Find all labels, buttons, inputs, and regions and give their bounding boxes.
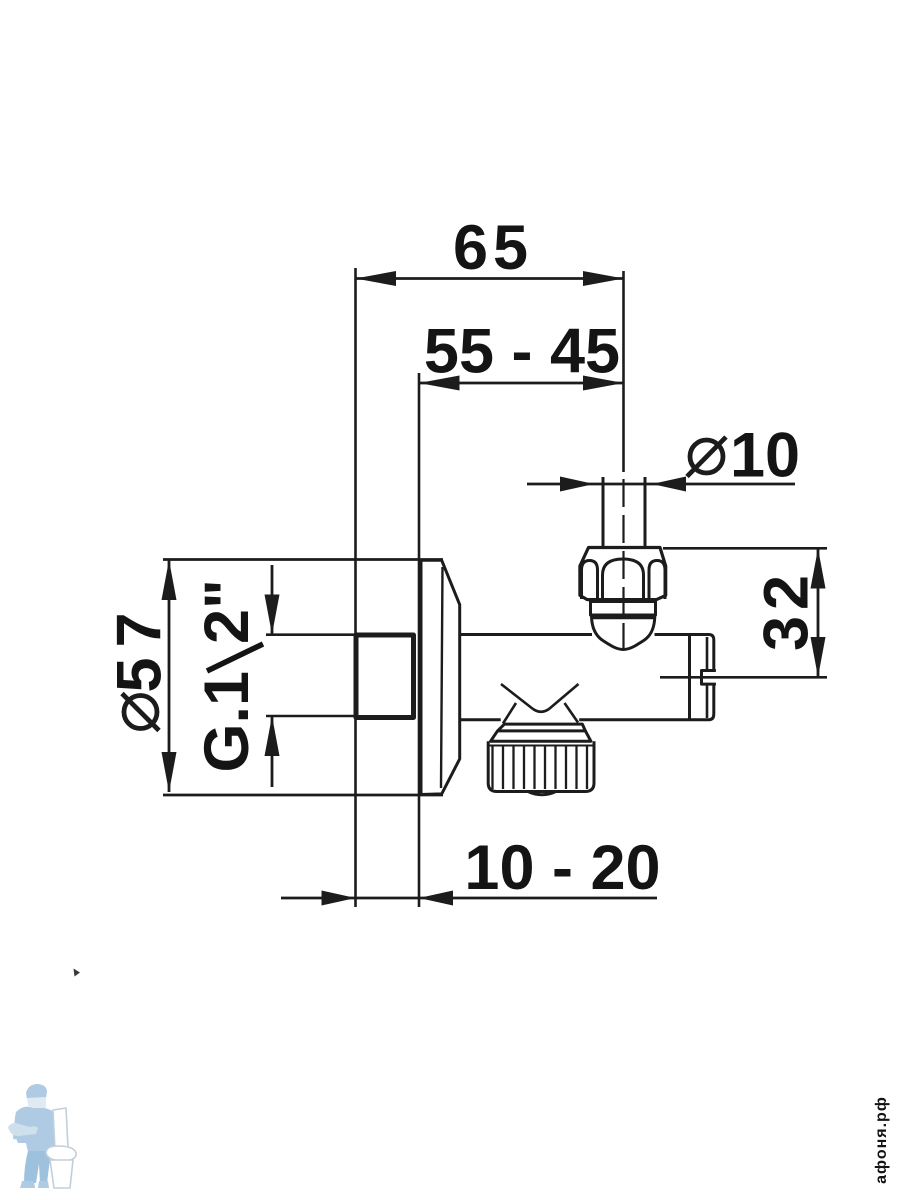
dimension 10-20 line: [281, 897, 657, 900]
svg-text:10: 10: [730, 421, 800, 491]
svg-text:57: 57: [105, 602, 175, 692]
dimension dia10 label symbol: [690, 440, 723, 473]
dimension dia57 bottom arrow: [162, 752, 177, 792]
valve: body top line right: [655, 633, 710, 636]
valve: nut left facet: [582, 561, 598, 600]
extension line left (square face): [354, 268, 357, 907]
valve: G1/2 male thread square: [356, 635, 414, 718]
dimension dia57 label: [105, 602, 175, 692]
valve: plate inner contour: [441, 567, 443, 788]
valve: outlet slot: [702, 671, 716, 685]
valve: wall escutcheon plate: [421, 560, 460, 794]
dimension 32 label: [752, 569, 822, 651]
valve: outlet pipe right line: [644, 477, 647, 548]
dimension G 1/2 upper line: [271, 565, 274, 635]
valve: handle bottom bulge: [528, 792, 556, 795]
dimension 32 line: [817, 549, 820, 678]
dia57 top reference line: [163, 558, 443, 561]
dimension dia10 left arrow: [560, 477, 594, 492]
valve: nut right facet: [649, 561, 665, 600]
dimension 65 line: [356, 277, 624, 280]
G 1/2 bottom reference line: [266, 715, 356, 718]
watermark logo toilet: [46, 1108, 76, 1188]
valve: outlet end cap: [709, 635, 714, 720]
valve: body bottom line right: [579, 718, 709, 721]
dimension G 1/2 lower line: [271, 716, 274, 787]
valve: washer under nut: [591, 602, 656, 616]
dimension 65 right arrow: [583, 271, 624, 286]
valve: body top line left: [460, 633, 592, 636]
valve: compression nut outline: [580, 548, 666, 600]
watermark logo plumber: [8, 1084, 63, 1188]
svg-text:65: 65: [453, 213, 533, 283]
dimension 65 left arrow: [356, 271, 397, 286]
valve: outlet pipe left line: [602, 477, 605, 548]
dimension dia57 top arrow: [162, 560, 177, 600]
svg-text:10 - 20: 10 - 20: [464, 833, 660, 903]
valve: nut center dome: [603, 559, 644, 599]
valve: washer shadow line: [592, 616, 654, 620]
dimension 55-45 right arrow: [583, 376, 624, 391]
dimension dia10 right arrow: [652, 477, 686, 492]
dimension 32 bottom arrow: [811, 637, 826, 677]
dimension G 1/2 lower arrow: [265, 716, 280, 756]
svg-text:55 - 45: 55 - 45: [424, 317, 620, 387]
dimension G 1/2 upper arrow: [265, 595, 280, 635]
dimension 55-45 left arrow: [419, 376, 460, 391]
valve: body bottom line left: [460, 718, 501, 721]
stray speck: [74, 969, 81, 977]
valve: handle knurled body: [488, 741, 594, 791]
dimension dia57 line: [168, 560, 171, 792]
extension line wall face: [418, 373, 421, 907]
dimension 10-20 left arrow: [322, 891, 356, 906]
valve: neck bulb: [592, 615, 655, 650]
extension line pipe axis: [622, 271, 625, 472]
valve: body right joint line: [688, 635, 691, 720]
valve: handle collar: [498, 724, 586, 731]
dimension G 1/2 label: [192, 579, 263, 772]
32 top reference line: [663, 547, 827, 550]
dimension 10-20 right arrow: [419, 891, 453, 906]
valve: handle knurl ridges: [493, 746, 588, 789]
valve: X seat mark: [501, 684, 579, 724]
dimension 32 top arrow: [811, 549, 826, 589]
svg-text:афоня.рф: афоня.рф: [873, 1096, 890, 1184]
svg-text:": ": [192, 579, 262, 609]
svg-text:G.1: G.1: [192, 671, 262, 773]
32 bottom reference line: [660, 676, 827, 679]
valve: handle knurl top line: [489, 745, 593, 747]
G 1/2 top reference line: [266, 633, 356, 636]
dimension dia10 line: [527, 483, 795, 486]
svg-text:2: 2: [192, 609, 262, 644]
valve: handle flare: [491, 731, 591, 741]
valve: pipe centerline: [622, 479, 624, 650]
valve: outlet inner contour: [706, 637, 709, 718]
dimension 55-45 line: [419, 382, 624, 385]
dia57 bottom reference line: [163, 794, 443, 797]
